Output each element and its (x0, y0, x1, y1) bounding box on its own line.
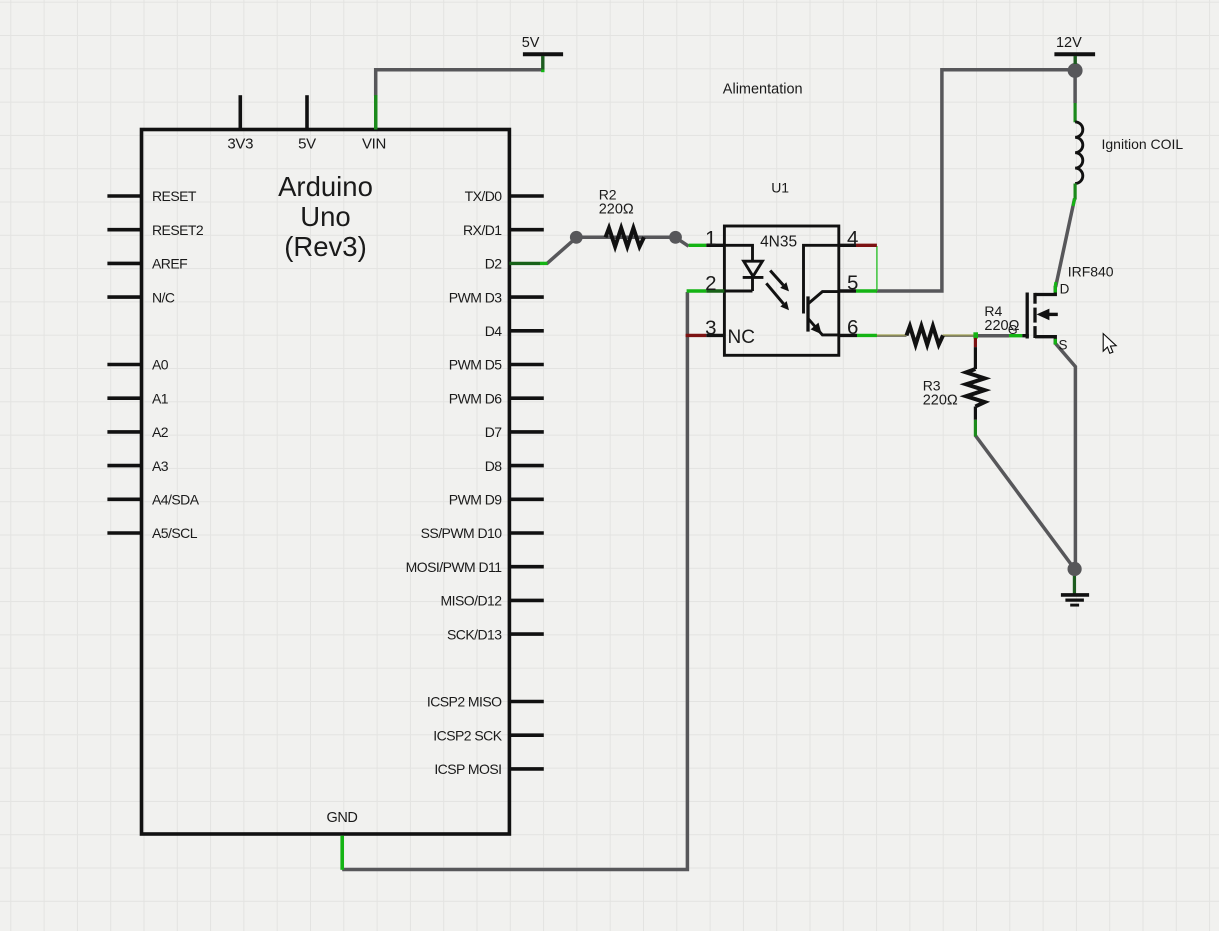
svg-text:2: 2 (705, 272, 716, 295)
svg-text:D7: D7 (485, 424, 503, 440)
svg-text:(Rev3): (Rev3) (284, 231, 367, 262)
svg-text:220Ω: 220Ω (923, 392, 958, 408)
svg-text:PWM D6: PWM D6 (449, 390, 502, 406)
svg-text:ICSP2 SCK: ICSP2 SCK (433, 727, 502, 743)
svg-text:Arduino: Arduino (278, 171, 373, 202)
svg-text:R4: R4 (984, 303, 1002, 319)
svg-text:5: 5 (847, 272, 858, 295)
svg-text:SCK/D13: SCK/D13 (447, 626, 502, 642)
svg-text:MOSI/PWM D11: MOSI/PWM D11 (406, 559, 503, 575)
svg-text:RESET2: RESET2 (152, 222, 204, 238)
svg-text:D8: D8 (485, 458, 503, 474)
svg-text:RESET: RESET (152, 188, 197, 204)
svg-text:5V: 5V (522, 35, 540, 51)
svg-text:PWM D5: PWM D5 (449, 357, 502, 373)
svg-text:12V: 12V (1056, 35, 1082, 51)
svg-text:A2: A2 (152, 424, 169, 440)
svg-text:ICSP2 MISO: ICSP2 MISO (427, 694, 502, 710)
svg-text:5V: 5V (298, 136, 316, 153)
svg-text:6: 6 (847, 316, 858, 339)
svg-text:GND: GND (326, 810, 357, 826)
svg-text:Alimentation: Alimentation (723, 82, 803, 98)
svg-text:Uno: Uno (300, 201, 350, 232)
svg-text:AREF: AREF (152, 256, 187, 272)
svg-text:A1: A1 (152, 390, 169, 406)
svg-text:U1: U1 (771, 180, 789, 196)
svg-text:S: S (1059, 338, 1068, 353)
svg-text:D2: D2 (485, 256, 503, 272)
svg-text:IRF840: IRF840 (1068, 263, 1114, 279)
svg-text:4N35: 4N35 (760, 233, 797, 250)
svg-text:Ignition COIL: Ignition COIL (1102, 136, 1184, 152)
svg-text:3V3: 3V3 (227, 136, 253, 153)
svg-text:RX/D1: RX/D1 (463, 222, 502, 238)
svg-text:VIN: VIN (362, 136, 386, 153)
svg-text:A0: A0 (152, 357, 169, 373)
svg-text:R3: R3 (923, 378, 941, 394)
svg-text:A4/SDA: A4/SDA (152, 492, 200, 508)
svg-text:G: G (1008, 323, 1018, 337)
svg-text:SS/PWM D10: SS/PWM D10 (421, 525, 503, 541)
svg-text:A5/SCL: A5/SCL (152, 525, 198, 541)
svg-text:3: 3 (705, 317, 716, 340)
svg-text:D: D (1060, 281, 1070, 296)
svg-text:NC: NC (728, 327, 755, 348)
svg-text:PWM D3: PWM D3 (449, 289, 502, 305)
svg-text:A3: A3 (152, 458, 169, 474)
svg-text:D4: D4 (485, 323, 503, 339)
svg-text:220Ω: 220Ω (599, 202, 634, 218)
svg-text:1: 1 (705, 227, 716, 250)
svg-text:TX/D0: TX/D0 (465, 188, 503, 204)
svg-text:PWM D9: PWM D9 (449, 492, 502, 508)
svg-text:N/C: N/C (152, 289, 175, 305)
svg-text:MISO/D12: MISO/D12 (441, 593, 503, 609)
svg-text:ICSP MOSI: ICSP MOSI (434, 761, 501, 777)
svg-text:4: 4 (847, 227, 858, 250)
svg-text:R2: R2 (599, 187, 617, 203)
